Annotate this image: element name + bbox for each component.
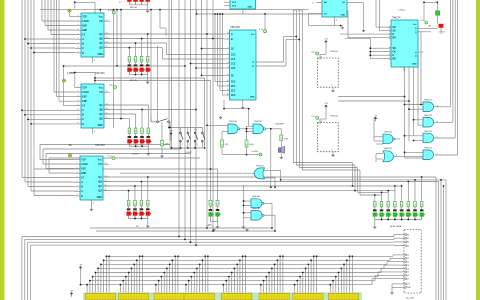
svg-text:2: 2	[217, 220, 218, 222]
svg-text:100K: 100K	[249, 144, 254, 146]
svg-text:10R: 10R	[284, 138, 288, 140]
svg-text:5: 5	[78, 104, 79, 106]
svg-text:2C1: 2C1	[231, 86, 236, 88]
svg-text:2C3: 2C3	[231, 95, 236, 97]
svg-text:1: 1	[77, 158, 78, 160]
svg-text:1C3: 1C3	[231, 68, 236, 70]
svg-text:CK: CK	[393, 31, 397, 33]
svg-text:11: 11	[312, 2, 314, 4]
svg-text:LOAD: LOAD	[82, 91, 89, 94]
svg-text:1: 1	[128, 217, 129, 219]
svg-text:Vcc: Vcc	[99, 87, 104, 89]
svg-text:2: 2	[77, 163, 78, 165]
svg-text:1: 1	[228, 47, 229, 49]
svg-text:2: 2	[381, 218, 382, 220]
svg-text:1: 1	[78, 86, 79, 88]
svg-text:4: 4	[147, 217, 148, 219]
svg-text:QC: QC	[98, 186, 102, 188]
svg-text:12: 12	[227, 89, 229, 91]
svg-text:3: 3	[388, 218, 389, 220]
svg-text:74HC32: 74HC32	[424, 131, 432, 133]
svg-text:2: 2	[135, 144, 136, 146]
svg-text:7: 7	[78, 43, 79, 45]
svg-text:9: 9	[77, 195, 78, 197]
svg-text:TCP: TCP	[82, 87, 87, 89]
svg-text:8: 8	[421, 218, 422, 220]
svg-text:5: 5	[78, 33, 79, 35]
svg-text:QD: QD	[98, 191, 102, 193]
svg-text:PC: PC	[136, 226, 139, 228]
svg-text:10: 10	[227, 80, 229, 82]
svg-text:GND: GND	[412, 64, 417, 66]
svg-text:LOAD: LOAD	[82, 20, 89, 23]
svg-text:GND: GND	[248, 7, 253, 9]
svg-text:1: 1	[129, 3, 130, 5]
svg-text:4: 4	[78, 100, 79, 102]
svg-text:8: 8	[396, 155, 397, 157]
svg-text:7: 7	[331, 150, 332, 152]
svg-text:Vcc: Vcc	[99, 16, 104, 18]
svg-text:1: 1	[129, 144, 130, 146]
svg-text:6: 6	[437, 137, 438, 139]
svg-text:RD3-A: RD3-A	[130, 6, 137, 9]
svg-text:14: 14	[106, 33, 108, 35]
svg-text:15: 15	[106, 91, 108, 93]
svg-text:1C2: 1C2	[231, 63, 236, 65]
svg-text:15: 15	[227, 74, 229, 76]
svg-text:2: 2	[228, 38, 229, 40]
svg-text:CO: CO	[99, 21, 103, 23]
svg-text:74HC00: 74HC00	[330, 116, 339, 118]
svg-text:6: 6	[77, 181, 78, 183]
svg-text:C Flag: C Flag	[398, 10, 405, 12]
svg-text:ENT: ENT	[81, 169, 86, 171]
svg-text:3: 3	[141, 73, 142, 75]
svg-text:GND: GND	[97, 197, 102, 199]
svg-text:11: 11	[106, 46, 108, 48]
svg-text:CO: CO	[99, 92, 103, 94]
svg-text:2C0: 2C0	[231, 81, 236, 83]
svg-text:2: 2	[135, 3, 136, 5]
svg-text:4: 4	[147, 73, 148, 75]
svg-text:8: 8	[94, 60, 95, 62]
svg-text:2E: 2E	[231, 75, 234, 77]
svg-text:4: 4	[204, 144, 205, 146]
svg-text:C-RST: C-RST	[132, 154, 139, 156]
svg-text:QD: QD	[99, 48, 103, 50]
svg-text:14: 14	[105, 176, 107, 178]
svg-text:SD: SD	[393, 27, 397, 29]
svg-text:ENT: ENT	[82, 26, 87, 28]
svg-text:8: 8	[336, 20, 337, 22]
svg-text:BC: BC	[69, 145, 73, 147]
svg-text:C-Pout: C-Pout	[67, 72, 75, 75]
svg-text:11: 11	[437, 106, 439, 108]
svg-text:7: 7	[245, 12, 246, 14]
svg-text:CY: CY	[82, 106, 86, 108]
svg-text:GND: GND	[98, 54, 103, 56]
svg-text:9: 9	[78, 52, 79, 54]
svg-text:8: 8	[78, 118, 79, 120]
svg-text:SD: SD	[393, 48, 397, 50]
svg-text:4: 4	[78, 29, 79, 31]
svg-text:74HC08: 74HC08	[252, 196, 260, 198]
svg-text:RD: RD	[393, 59, 397, 61]
svg-text:1: 1	[182, 144, 183, 146]
svg-text:8: 8	[437, 121, 438, 123]
svg-text:14: 14	[321, 57, 323, 59]
svg-text:74HC08: 74HC08	[254, 121, 262, 123]
svg-text:2: 2	[135, 217, 136, 219]
svg-text:3: 3	[197, 144, 198, 146]
svg-text:2: 2	[78, 20, 79, 22]
svg-text:8: 8	[94, 131, 95, 133]
svg-text:QB: QB	[99, 38, 103, 40]
svg-text:2: 2	[135, 73, 136, 75]
svg-text:Vcc: Vcc	[98, 159, 103, 161]
svg-text:74HC32: 74HC32	[424, 115, 432, 117]
svg-text:13: 13	[227, 94, 229, 96]
svg-text:7: 7	[78, 114, 79, 116]
svg-text:QC: QC	[99, 114, 103, 116]
svg-text:7: 7	[406, 70, 407, 72]
svg-text:3: 3	[78, 24, 79, 26]
svg-text:C FLG: C FLG	[439, 32, 446, 34]
svg-text:CK: CK	[393, 52, 397, 54]
svg-text:3: 3	[437, 154, 438, 156]
svg-text:2: 2	[78, 91, 79, 93]
svg-text:15: 15	[105, 163, 107, 165]
svg-text:1: 1	[210, 220, 211, 222]
svg-text:74HC32: 74HC32	[424, 148, 432, 150]
svg-text:74HC153: 74HC153	[230, 27, 240, 29]
svg-text:1: 1	[267, 180, 268, 182]
svg-text:6: 6	[228, 53, 229, 55]
svg-text:1C0: 1C0	[231, 54, 236, 56]
svg-text:74HC163: 74HC163	[95, 145, 105, 147]
svg-text:74HC32: 74HC32	[256, 166, 264, 168]
svg-text:74HC32: 74HC32	[424, 100, 432, 102]
svg-text:6: 6	[78, 38, 79, 40]
svg-text:LOAD: LOAD	[81, 163, 88, 166]
svg-text:[1-RST]: [1-RST]	[185, 152, 193, 154]
svg-text:74HC32: 74HC32	[384, 148, 392, 150]
svg-text:1: 1	[374, 218, 375, 220]
svg-text:ENP: ENP	[82, 30, 87, 32]
svg-text:8: 8	[77, 190, 78, 192]
svg-text:9: 9	[78, 123, 79, 125]
svg-text:ENP: ENP	[81, 173, 86, 175]
svg-text:4: 4	[148, 144, 149, 146]
svg-text:4: 4	[147, 3, 148, 5]
svg-text:1E: 1E	[231, 48, 234, 50]
svg-text:5: 5	[401, 218, 402, 220]
svg-text:CY: CY	[82, 35, 86, 37]
svg-text:GND: GND	[250, 97, 255, 99]
svg-text:3: 3	[78, 95, 79, 97]
svg-text:5: 5	[77, 176, 78, 178]
svg-text:74HC00: 74HC00	[229, 121, 237, 123]
svg-text:74HC00: 74HC00	[330, 51, 339, 53]
svg-text:8: 8	[93, 203, 94, 205]
svg-text:QB: QB	[99, 109, 103, 111]
svg-text:1C1: 1C1	[231, 59, 236, 61]
svg-text:3: 3	[228, 67, 229, 69]
svg-text:4: 4	[228, 62, 229, 64]
svg-text:GND: GND	[341, 15, 346, 17]
svg-text:5: 5	[228, 58, 229, 60]
svg-text:74HC08: 74HC08	[252, 208, 260, 210]
svg-text:3: 3	[141, 217, 142, 219]
svg-text:6: 6	[78, 109, 79, 111]
svg-text:GND: GND	[407, 287, 412, 289]
svg-text:CM: CM	[428, 26, 431, 28]
svg-text:11: 11	[106, 117, 108, 119]
svg-text:4: 4	[77, 172, 78, 174]
svg-text:7: 7	[415, 218, 416, 220]
svg-text:11: 11	[227, 85, 229, 87]
svg-text:12: 12	[106, 42, 108, 44]
svg-text:74HC74: 74HC74	[392, 18, 401, 20]
svg-text:13: 13	[105, 180, 107, 182]
svg-text:QA: QA	[99, 104, 103, 107]
svg-text:CO: CO	[98, 164, 102, 166]
svg-text:QB: QB	[98, 181, 102, 183]
svg-text:3: 3	[141, 3, 142, 5]
svg-text:74HC161: 74HC161	[95, 73, 105, 75]
svg-text:14: 14	[227, 33, 229, 35]
svg-text:TCP: TCP	[81, 159, 86, 161]
svg-text:14: 14	[106, 104, 108, 106]
svg-text:2: 2	[189, 144, 190, 146]
svg-text:RD2-A: RD2-A	[130, 79, 137, 82]
svg-text:1: 1	[78, 15, 79, 17]
svg-text:2: 2	[267, 169, 268, 171]
svg-text:15: 15	[106, 20, 108, 22]
svg-text:GND: GND	[98, 125, 103, 127]
svg-text:3: 3	[77, 167, 78, 169]
svg-text:8: 8	[78, 47, 79, 49]
svg-text:ROM DATA: ROM DATA	[390, 225, 402, 228]
svg-text:4: 4	[394, 218, 395, 220]
svg-text:QA: QA	[99, 33, 103, 36]
svg-text:DI-CON: DI-CON	[406, 297, 414, 299]
svg-text:ENT: ENT	[82, 97, 87, 99]
svg-text:7: 7	[77, 186, 78, 188]
svg-text:RD: RD	[393, 38, 397, 40]
svg-text:14: 14	[321, 121, 323, 123]
svg-text:TCP: TCP	[82, 16, 87, 18]
svg-text:QC: QC	[99, 43, 103, 45]
svg-text:1M: 1M	[225, 144, 228, 146]
svg-text:6: 6	[408, 218, 409, 220]
svg-text:12: 12	[106, 113, 108, 115]
svg-text:11: 11	[105, 189, 107, 191]
svg-text:13: 13	[106, 37, 108, 39]
svg-text:CY: CY	[81, 178, 85, 180]
svg-text:2C2: 2C2	[231, 90, 236, 92]
svg-text:0.033u: 0.033u	[252, 151, 259, 153]
svg-text:3: 3	[142, 144, 143, 146]
svg-text:13: 13	[106, 108, 108, 110]
svg-text:ENP: ENP	[82, 101, 87, 103]
svg-text:12: 12	[105, 185, 107, 187]
svg-text:74HC08: 74HC08	[384, 131, 392, 133]
svg-text:7: 7	[331, 85, 332, 87]
svg-text:BUZZER: BUZZER	[276, 123, 285, 125]
svg-text:QA: QA	[98, 176, 102, 179]
svg-text:QD: QD	[99, 119, 103, 121]
svg-text:1: 1	[129, 73, 130, 75]
